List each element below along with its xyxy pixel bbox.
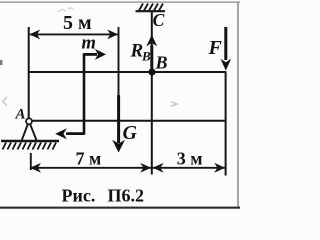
label m [82, 34, 96, 54]
svg-text:m: m [82, 34, 96, 54]
wire: link C-B vertical, extended to bottom dimension [151, 12, 153, 175]
wire: left column member at A, x=28.7 [28, 27, 30, 122]
label B [155, 53, 168, 73]
force RB reaction arrow (up along BC) [146, 35, 157, 72]
caption Fig P6.2 [62, 186, 145, 206]
svg-text:A: A [15, 106, 26, 122]
svg-text:B: B [141, 49, 151, 64]
scan smudge top left [58, 8, 73, 12]
svg-text:B: B [155, 53, 168, 73]
bottom border line [0, 207, 240, 209]
label RB [130, 41, 152, 64]
force F arrow (down at right end) [221, 27, 232, 71]
dimension 7m / 3m: bottom line and arrowheads [30, 163, 225, 173]
support: pin at A (circle) [26, 118, 32, 124]
svg-text:G: G [123, 122, 138, 144]
support: ceiling hatching at C [136, 4, 166, 12]
wire: lower horizontal member through A, y=120.7 [29, 120, 227, 122]
right border line [237, 1, 239, 207]
top border line [0, 1, 240, 3]
support: pin triangle at A [22, 124, 37, 140]
svg-text:Рис.: Рис. [62, 186, 96, 206]
dimension 5m: line and arrowheads [29, 30, 118, 40]
label 7 m [76, 149, 102, 169]
scan smudge left edge [0, 60, 3, 65]
moment m couple: vertical member x=84 [83, 53, 86, 135]
svg-text:3 м: 3 м [177, 149, 203, 169]
label F [208, 37, 223, 59]
label A [15, 106, 26, 122]
moment m couple: upper arrow pointing right [84, 49, 106, 60]
label 3 m [177, 149, 203, 169]
dimension extension line below A [30, 153, 32, 170]
force G arrow (down, load) [112, 95, 125, 153]
wire: vertical member of G at x=118.5 [118, 27, 120, 98]
label 5 m [63, 12, 92, 34]
wire: right vertical member, extended to bottom dimension [225, 72, 227, 176]
svg-text:5 м: 5 м [63, 12, 92, 34]
scan smudge right of G [171, 102, 177, 107]
wire: upper horizontal member through B, y=72 [29, 71, 227, 73]
support: ground line and hatching at A [1, 141, 59, 150]
node B (filled junction dot) [148, 68, 155, 75]
label C [153, 10, 165, 30]
scan smudge left [3, 97, 7, 106]
label G [123, 122, 138, 144]
moment m couple: lower arrow pointing left [55, 128, 84, 139]
svg-text:F: F [208, 37, 223, 59]
svg-text:П6.2: П6.2 [108, 186, 145, 206]
svg-text:C: C [153, 10, 165, 30]
svg-text:7 м: 7 м [76, 149, 102, 169]
